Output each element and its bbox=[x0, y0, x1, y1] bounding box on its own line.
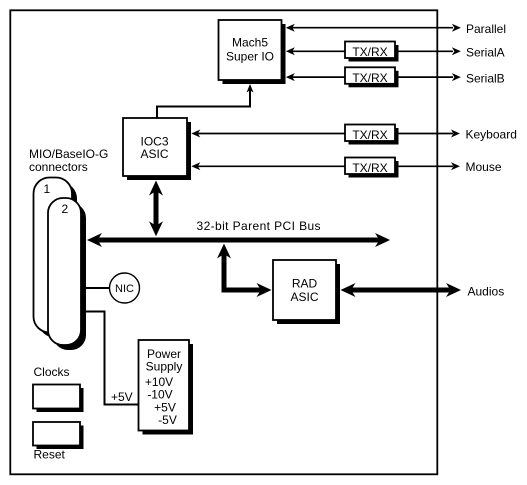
svg-text:Supply: Supply bbox=[146, 360, 183, 374]
svg-text:TX/RX: TX/RX bbox=[352, 45, 387, 59]
svg-text:-10V: -10V bbox=[147, 388, 172, 402]
svg-text:ASIC: ASIC bbox=[140, 147, 168, 161]
svg-text:MIO/BaseIO-G: MIO/BaseIO-G bbox=[29, 147, 108, 161]
svg-text:1: 1 bbox=[44, 182, 51, 196]
svg-text:Audios: Audios bbox=[468, 284, 505, 298]
svg-text:Clocks: Clocks bbox=[34, 365, 70, 379]
svg-text:Reset: Reset bbox=[34, 448, 66, 462]
svg-text:SerialB: SerialB bbox=[466, 71, 505, 85]
svg-text:Super IO: Super IO bbox=[226, 50, 274, 64]
svg-text:32-bit Parent PCI Bus: 32-bit Parent PCI Bus bbox=[197, 219, 321, 233]
svg-text:NIC: NIC bbox=[115, 283, 134, 295]
svg-text:2: 2 bbox=[62, 202, 69, 216]
svg-text:Mouse: Mouse bbox=[466, 160, 502, 174]
svg-text:Parallel: Parallel bbox=[466, 22, 506, 36]
svg-text:Keyboard: Keyboard bbox=[466, 127, 517, 141]
svg-text:Mach5: Mach5 bbox=[232, 36, 268, 50]
svg-text:RAD: RAD bbox=[292, 277, 318, 291]
svg-text:TX/RX: TX/RX bbox=[352, 71, 387, 85]
svg-text:ASIC: ASIC bbox=[290, 290, 318, 304]
svg-text:connectors: connectors bbox=[29, 160, 88, 174]
svg-text:SerialA: SerialA bbox=[466, 46, 505, 60]
svg-text:-5V: -5V bbox=[158, 413, 177, 427]
svg-text:TX/RX: TX/RX bbox=[352, 128, 387, 142]
svg-text:TX/RX: TX/RX bbox=[352, 161, 387, 175]
svg-text:+5V: +5V bbox=[111, 390, 133, 404]
